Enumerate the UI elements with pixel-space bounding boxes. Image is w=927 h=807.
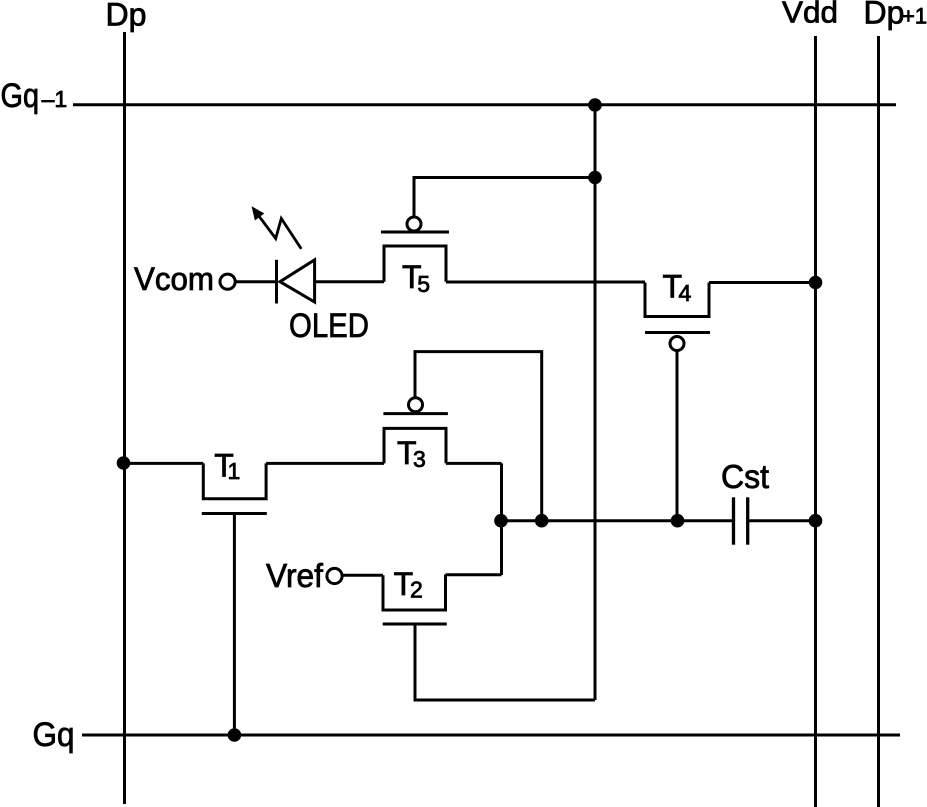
transistor T4 (gate circle) — [670, 337, 684, 351]
transistor T4 (gate bar) — [645, 331, 710, 334]
node junction dot T1 gate on Gq — [228, 728, 242, 742]
svg-text:Vdd: Vdd — [782, 0, 838, 30]
transistor T3 (channel) — [384, 428, 446, 463]
svg-text:Vref: Vref — [266, 557, 324, 594]
wire T3 drain to node column — [446, 462, 502, 465]
wire OLED anode to T5 source — [315, 280, 384, 283]
transistor T2 (channel) — [383, 575, 446, 611]
capacitor Cst (right plate) — [746, 497, 749, 544]
wire T2 drain to node column — [446, 573, 502, 576]
node junction dot on Gq-1 — [588, 98, 602, 112]
wire node column T3 drain to T2 drain — [500, 463, 503, 575]
svg-text:Gq: Gq — [1, 77, 40, 115]
net wire from Gq-1 down to T2 gate (vertical at x=595) — [594, 105, 597, 700]
label T2 — [394, 566, 423, 603]
transistor T5 (gate circle) — [407, 217, 421, 231]
node junction dot T4 drain at Vdd — [809, 276, 823, 290]
label T1 — [214, 448, 240, 485]
label T3 — [397, 435, 426, 472]
svg-text:–1: –1 — [42, 86, 68, 112]
svg-text:4: 4 — [679, 280, 692, 306]
svg-text:Dp: Dp — [106, 0, 147, 33]
wire T5 gate to net x595 — [414, 178, 595, 218]
scan line Gq-1 (horizontal bus) — [73, 103, 896, 106]
diode OLED (anode triangle) — [280, 260, 315, 302]
wire T3 gate loop to storage node — [415, 352, 542, 521]
node junction dot T3/T2 drain — [494, 514, 508, 528]
transistor T1 (channel) — [203, 463, 266, 498]
svg-text:Cst: Cst — [721, 458, 769, 495]
label Gq-1 — [1, 77, 68, 115]
wire Vref terminal to T2 source — [342, 574, 383, 577]
wire Cst right plate to Vdd — [748, 519, 816, 522]
node junction dot T5 gate tap — [588, 171, 602, 185]
node junction dot T3 gate loop — [535, 514, 549, 528]
terminal Vref (open circle) — [327, 568, 342, 583]
wire T1 drain to T3 source — [266, 462, 384, 465]
label T5 — [402, 259, 430, 297]
label Dp+1 — [864, 0, 927, 31]
transistor T5 (channel) — [384, 246, 446, 282]
node junction dot Dp tap for T1 — [117, 456, 131, 470]
wire Vcom terminal to OLED cathode — [235, 280, 275, 283]
svg-text:3: 3 — [413, 446, 426, 472]
node junction dot Cst at Vdd — [809, 514, 823, 528]
transistor T5 (gate bar) — [381, 231, 449, 234]
wire T1 gate down to Gq — [233, 514, 236, 736]
wire Dp to T1 source — [124, 462, 204, 465]
transistor T1 (gate bar) — [202, 512, 267, 515]
transistor T3 (gate bar) — [383, 412, 448, 415]
svg-text:5: 5 — [417, 271, 430, 297]
wire T4 drain to Vdd — [709, 281, 816, 284]
svg-text:2: 2 — [410, 577, 423, 603]
wire storage node to Cst left plate — [502, 519, 734, 522]
terminal Vcom (open circle) — [220, 274, 235, 289]
node junction dot T4 gate — [671, 514, 685, 528]
light emission arrow — [252, 207, 301, 249]
data line Dp (vertical bus) — [123, 32, 126, 804]
power line Vdd (vertical bus) — [814, 36, 817, 807]
transistor T4 (channel) — [645, 283, 709, 317]
diode OLED (cathode bar) — [275, 260, 278, 304]
transistor T2 (gate bar) — [383, 623, 447, 626]
transistor T3 (gate circle) — [409, 398, 423, 412]
svg-text:1: 1 — [228, 458, 241, 484]
data line Dp+1 (vertical bus) — [877, 36, 880, 807]
capacitor Cst (left plate) — [732, 497, 735, 544]
wire T5 drain to T4 source — [446, 281, 645, 284]
label T4 — [663, 269, 692, 307]
svg-text:+1: +1 — [902, 4, 927, 29]
svg-text:Dp: Dp — [864, 0, 905, 31]
svg-text:Gq: Gq — [33, 716, 75, 754]
wire T4 gate down to storage node — [676, 351, 679, 521]
svg-text:OLED: OLED — [289, 307, 369, 345]
scan line Gq (horizontal bus) — [82, 734, 900, 737]
svg-text:Vcom: Vcom — [134, 261, 214, 297]
wire T2 gate to net x595 — [415, 624, 595, 700]
